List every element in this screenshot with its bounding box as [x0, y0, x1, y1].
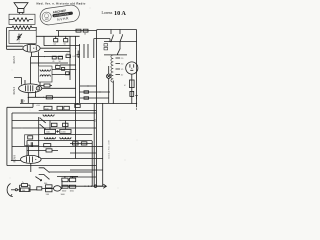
rail end stub — [135, 96, 138, 110]
svg-text:150: 150 — [121, 64, 124, 66]
output tube RES — [23, 44, 40, 52]
svg-text:0,1: 0,1 — [56, 64, 59, 66]
cathode rail y97.3 — [28, 97, 75, 98]
earth plug — [94, 184, 106, 188]
antenna series resistor 100 — [21, 185, 37, 192]
svg-text:2: 2 — [24, 101, 25, 103]
coil bottom wire — [112, 81, 114, 104]
coupling coil oval — [42, 186, 65, 196]
svg-text:+1: +1 — [18, 42, 20, 44]
svg-text:t.100: t.100 — [36, 104, 40, 107]
IF amp tube UBF — [19, 84, 42, 93]
svg-text:10 A: 10 A — [114, 10, 126, 17]
IF coil upper — [40, 70, 50, 72]
rail y146.5 — [12, 146, 103, 148]
rail y128 — [12, 127, 96, 129]
mains switch S1a — [110, 30, 113, 43]
svg-text:50: 50 — [84, 34, 86, 36]
svg-text:250: 250 — [95, 119, 97, 122]
band switch K1a — [39, 117, 45, 123]
svg-text:Ned. Ver. v. Historie v/d Radi: Ned. Ver. v. Historie v/d Radio — [37, 1, 86, 5]
rail y54.9 — [104, 54, 127, 56]
capacitor box 0,1 — [56, 64, 61, 69]
rectifier cathode wire — [131, 74, 133, 103]
wire y98 — [80, 97, 109, 99]
wire rail y30.6 — [56, 30, 97, 32]
padder box 100 — [44, 129, 55, 133]
capacitor box on y98 — [84, 97, 89, 99]
scan speckle — [10, 8, 138, 189]
trimmer arrows — [56, 130, 59, 132]
svg-text:300: 300 — [44, 183, 47, 185]
chassis box with hum pot — [9, 30, 36, 43]
rail y120.5 — [12, 120, 94, 122]
rail y160.5 stub — [11, 160, 21, 162]
wire tube top feed — [28, 147, 30, 156]
vertical bus x70 — [69, 36, 71, 80]
svg-text:NVHR: NVHR — [57, 16, 69, 22]
rail y172 — [49, 171, 92, 173]
resistor Tk — [63, 123, 68, 126]
svg-text:500: 500 — [46, 194, 49, 196]
resistor 300 — [44, 183, 52, 188]
AVC divider cluster — [57, 176, 78, 192]
resistor box mid2 — [66, 72, 70, 75]
decoupling boxes y57 — [44, 56, 63, 63]
wire screen to IF box — [38, 51, 40, 66]
resistor box +2 — [66, 53, 71, 58]
wire IF out top — [60, 64, 76, 66]
svg-text:Geänd. v. Febr. 1938: Geänd. v. Febr. 1938 — [109, 139, 111, 159]
cathode capacitor — [21, 99, 25, 103]
voltage selector switch — [117, 42, 121, 55]
filter cap stack — [104, 44, 108, 50]
bottom right rail — [62, 186, 103, 188]
junction dot top — [96, 30, 97, 31]
wire mid rail y45.6 — [44, 45, 80, 47]
svg-text:110: 110 — [121, 75, 124, 77]
resistor 500 — [46, 189, 52, 196]
left stub rail y107.3 — [7, 103, 33, 107]
junction dots bottom — [84, 186, 92, 187]
hanging box below rail103 — [75, 103, 80, 107]
hum potentiometer — [17, 34, 22, 44]
wire tube cathode drop — [30, 163, 32, 172]
transformer winding — [9, 18, 33, 22]
wire tube bottom — [32, 52, 64, 57]
stub rail to rail — [43, 36, 45, 45]
svg-text:45: 45 — [52, 61, 54, 63]
svg-text:Si: Si — [125, 84, 127, 86]
wire tube right out — [41, 158, 76, 160]
wire stub — [30, 57, 32, 63]
wire tube cathode down — [28, 93, 29, 104]
svg-text:Lorenz: Lorenz — [102, 11, 113, 15]
svg-text:+2: +2 — [66, 53, 68, 55]
svg-text:Tr: Tr — [28, 144, 30, 147]
resistor hanging Ra2 — [64, 36, 68, 45]
wire IF box stub — [39, 82, 41, 85]
wire y92 — [80, 91, 110, 93]
rectifier tube — [126, 62, 138, 74]
loudspeaker LS — [14, 3, 28, 13]
wire IF out upper — [52, 69, 76, 71]
svg-text:50: 50 — [59, 61, 61, 63]
osc coil left — [44, 137, 55, 139]
svg-text:REN 9: REN 9 — [14, 155, 17, 163]
wire anode lead — [40, 47, 70, 49]
wire right of resistor down — [35, 28, 37, 31]
junction dot y92 — [99, 91, 100, 92]
antenna — [7, 184, 17, 197]
vertical x27 — [26, 141, 28, 156]
vertical bus x75.6 — [75, 36, 77, 158]
padder box 1000 — [60, 129, 71, 133]
rail y41.6 — [104, 41, 137, 43]
wire y38.6 — [94, 39, 110, 58]
wire screen lead — [44, 50, 70, 52]
wire IF out lower — [52, 74, 70, 76]
capacitor box on y92 — [84, 91, 89, 93]
switch K2b — [39, 174, 50, 180]
junction dot — [58, 36, 59, 37]
coupling box verticals — [84, 44, 88, 58]
transformer taps — [116, 58, 124, 77]
wire left rail top — [6, 28, 8, 50]
rail y134.5 — [39, 134, 92, 136]
resistor box on y97.3 — [46, 96, 52, 99]
anode resistor box — [44, 144, 51, 147]
wire cathode lead — [7, 48, 23, 50]
resistor box mid — [62, 68, 65, 71]
rail y165.5 — [7, 165, 97, 167]
long rail y103.4 — [20, 102, 137, 104]
wire into IF from tube — [14, 63, 31, 85]
capacitor box series — [76, 29, 81, 32]
svg-text:3000: 3000 — [62, 191, 66, 193]
grid capacitor — [28, 142, 33, 147]
electrolytic 0,5 — [73, 51, 80, 59]
IF transformer box — [39, 66, 53, 82]
svg-text:0,5: 0,5 — [73, 56, 76, 58]
vertical x92.2 — [91, 141, 93, 186]
dial lamp — [107, 66, 111, 103]
vertical x102.7 — [102, 103, 104, 186]
rail y153 — [70, 152, 96, 154]
fuse box Si — [125, 80, 135, 88]
resistor Rd — [27, 149, 58, 152]
rail y113 — [12, 112, 96, 114]
svg-text:RES 9: RES 9 — [13, 56, 16, 64]
rail y170 — [70, 169, 103, 171]
resistor hanging Ra1 — [54, 36, 58, 45]
mixer tube UCH — [21, 155, 42, 163]
wire grid lead — [7, 45, 23, 47]
screen drop — [35, 91, 36, 98]
wire speaker to output transformer — [19, 13, 23, 15]
band switch K1b — [39, 124, 45, 130]
wire tube right lead — [42, 87, 76, 89]
rail y140.5 — [27, 140, 92, 142]
tuning box row1 right — [57, 106, 63, 110]
padder stubs — [50, 121, 65, 130]
svg-text:125: 125 — [121, 69, 124, 71]
coil row1 — [43, 115, 54, 117]
vertical x38.7 — [38, 117, 40, 158]
filter box 0,1 — [130, 91, 134, 96]
coupling stub — [58, 31, 60, 37]
power transformer primary coil — [111, 55, 113, 82]
vertical x96.4 — [95, 31, 97, 187]
wire y86 — [80, 85, 97, 87]
resistor Ra below IF — [39, 84, 53, 87]
B+ rail — [36, 35, 79, 37]
vertical bus x79.6 — [79, 44, 81, 103]
vertical x62 — [61, 180, 63, 189]
oscillator coil box — [25, 135, 39, 146]
capacitor box series2 — [83, 29, 88, 35]
osc coil right — [60, 137, 71, 139]
NVHR archive stamp — [39, 4, 80, 26]
top right rail — [97, 29, 137, 31]
wire y141.8 boxes — [70, 142, 92, 145]
switch on y86 — [87, 85, 88, 86]
bottom row resistor 50 — [37, 187, 42, 190]
svg-text:1000: 1000 — [61, 194, 65, 196]
switch K3 — [35, 176, 41, 181]
antenna series capacitor — [17, 181, 30, 192]
output transformer box — [9, 14, 35, 24]
field coil resistor — [7, 26, 37, 29]
switch K2a — [39, 167, 50, 173]
IF coil lower — [40, 75, 50, 77]
vertical x94.2 — [93, 103, 95, 186]
mains switch S1 — [119, 30, 123, 43]
left outer vertical — [6, 107, 8, 165]
rail y177 — [70, 176, 96, 178]
resistor X2 — [51, 123, 57, 126]
svg-text:220: 220 — [121, 58, 124, 60]
wire horizontal y63 — [31, 62, 69, 64]
svg-text:1000: 1000 — [70, 191, 74, 193]
rail y110.4 — [39, 109, 97, 111]
rail y158.5 — [76, 158, 103, 160]
right vertical rail — [136, 30, 138, 104]
svg-text:REN 4: REN 4 — [13, 87, 16, 95]
left inner vertical — [11, 113, 13, 161]
junction dots mid — [75, 48, 132, 147]
tuning box row1 left — [44, 106, 52, 110]
